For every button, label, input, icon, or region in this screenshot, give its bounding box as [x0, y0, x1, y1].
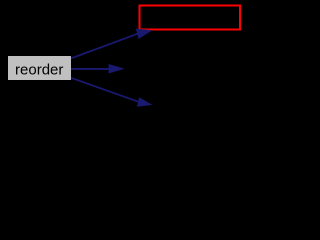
svg-text:reorder: reorder [15, 61, 63, 78]
